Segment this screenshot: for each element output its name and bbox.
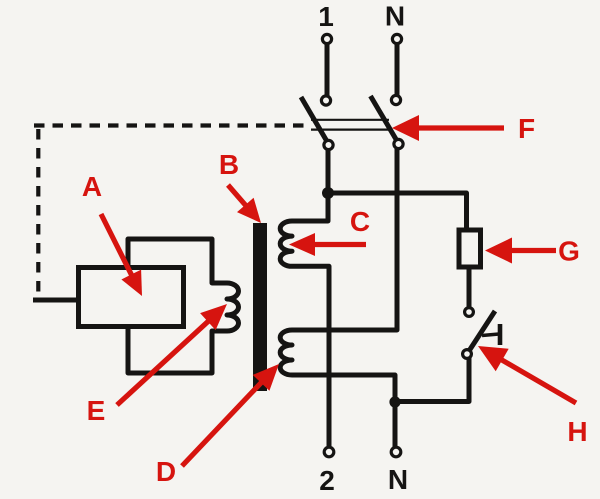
svg-text:D: D: [156, 456, 176, 487]
test switch H actuator: [482, 334, 499, 336]
wire test switch return: [395, 357, 469, 402]
breaker blade pole 1: [301, 97, 329, 144]
arrow F: [392, 115, 504, 141]
svg-text:2: 2: [319, 465, 335, 496]
wire test branch top: [328, 193, 467, 230]
terminal 2 circle: [324, 447, 334, 457]
wire pole-1 contact to junction: [326, 148, 331, 195]
junction dot N/test return: [389, 396, 400, 407]
test switch upper contact: [465, 308, 474, 317]
svg-text:N: N: [385, 1, 405, 32]
arrow E: [117, 304, 227, 405]
arrow G: [485, 238, 556, 264]
relay box A: [79, 268, 184, 327]
svg-text:F: F: [518, 113, 535, 144]
arrow C: [289, 233, 366, 256]
svg-text:1: 1: [318, 1, 334, 32]
terminal N bottom circle: [391, 447, 401, 457]
wire terminal N lead: [395, 43, 400, 96]
terminal N circle: [392, 34, 401, 43]
svg-text:E: E: [87, 395, 106, 426]
wire relay trip link (solid): [33, 298, 79, 303]
contact circle pole N bottom: [394, 139, 403, 148]
arrow H: [478, 346, 576, 403]
resistor G: [459, 230, 481, 267]
svg-text:N: N: [388, 464, 408, 495]
arrow A: [101, 214, 142, 296]
contact circle pole N top: [391, 95, 400, 104]
dashed trip linkage vertical: [36, 129, 40, 292]
arrow B: [228, 185, 261, 223]
terminal 1 circle: [322, 34, 331, 43]
dashed trip linkage horizontal: [34, 123, 307, 127]
svg-text:A: A: [82, 171, 102, 202]
wire line N / primary coil D path: [280, 147, 397, 448]
svg-text:C: C: [350, 206, 370, 237]
breaker linkage bar F: [311, 120, 389, 130]
contact circle pole 1 bottom: [324, 140, 333, 149]
svg-text:B: B: [219, 149, 239, 180]
test switch lower contact: [463, 350, 472, 359]
contact circle pole 1 top: [321, 96, 330, 105]
test switch H blade: [467, 311, 495, 354]
wire line 1 / primary coil C path: [280, 193, 329, 448]
wire terminal 1 lead: [325, 43, 330, 97]
wire resistor to test switch contact: [467, 266, 472, 308]
relay loop with coil E: [128, 239, 239, 373]
transformer core B: [253, 223, 267, 391]
svg-text:H: H: [567, 416, 587, 447]
junction dot line1/test branch: [322, 187, 334, 199]
breaker blade pole N: [371, 96, 399, 144]
arrow D: [182, 364, 279, 466]
svg-text:G: G: [558, 236, 580, 267]
